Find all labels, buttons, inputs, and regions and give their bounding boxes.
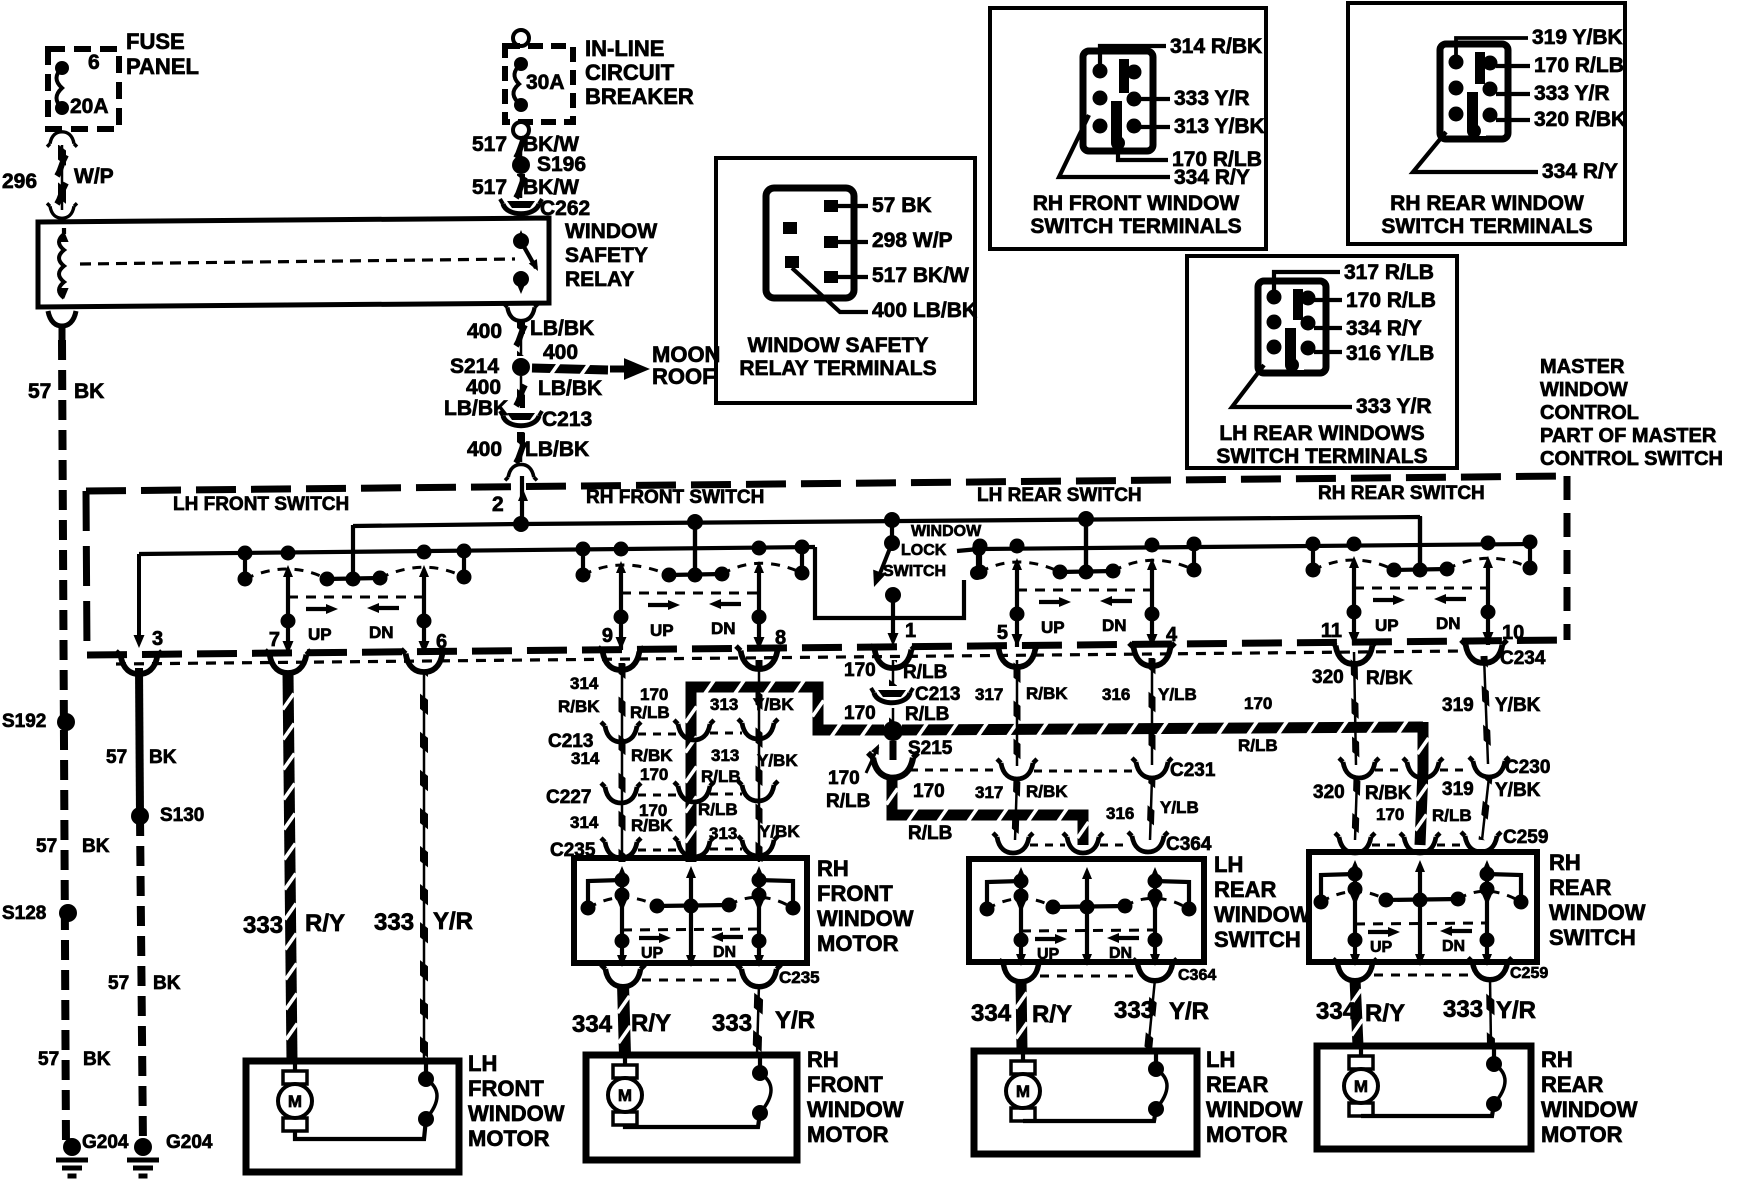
svg-text:314: 314 (570, 674, 599, 693)
wire 333 R/Y to LH front motor (288, 672, 292, 1061)
svg-text:LH: LH (1206, 1047, 1235, 1072)
svg-text:6: 6 (88, 51, 100, 74)
svg-text:FUSE: FUSE (126, 29, 185, 54)
svg-text:320 R/BK: 320 R/BK (1534, 108, 1626, 131)
svg-text:RH: RH (807, 1047, 839, 1072)
svg-text:M: M (1354, 1077, 1368, 1096)
svg-text:Y/LB: Y/LB (1158, 685, 1197, 704)
C230 connector row (1339, 758, 1379, 778)
RH rear window motor (1317, 1046, 1531, 1149)
splice S192 (57, 713, 75, 731)
wire 320 R/BK (1354, 652, 1356, 765)
svg-text:SWITCH TERMINALS: SWITCH TERMINALS (1030, 215, 1241, 238)
svg-text:R/BK: R/BK (631, 816, 673, 835)
svg-text:RELAY TERMINALS: RELAY TERMINALS (739, 357, 936, 380)
svg-text:3: 3 (152, 628, 163, 650)
relay coil (59, 234, 64, 298)
LH rear window motor (974, 1051, 1197, 1154)
svg-text:M: M (1016, 1082, 1030, 1101)
connector below fuse panel (47, 132, 77, 147)
svg-text:MOTOR: MOTOR (807, 1122, 889, 1147)
svg-text:MASTER: MASTER (1540, 356, 1625, 378)
svg-text:C364: C364 (1178, 967, 1216, 984)
C364 below LH rear switch (999, 960, 1043, 982)
window safety relay box (38, 218, 549, 307)
svg-text:30A: 30A (526, 71, 565, 94)
svg-text:RELAY: RELAY (565, 268, 634, 291)
svg-text:400: 400 (467, 438, 502, 461)
svg-text:UP: UP (308, 625, 332, 644)
splice S130 (131, 807, 149, 825)
svg-text:333: 333 (243, 912, 283, 939)
wire 296 W/P (61, 145, 64, 210)
svg-text:UP: UP (650, 621, 674, 640)
svg-text:R/LB: R/LB (698, 800, 738, 819)
svg-text:SAFETY: SAFETY (565, 244, 648, 267)
RH front window motor switch box (574, 858, 807, 963)
svg-text:333 Y/R: 333 Y/R (1356, 395, 1432, 418)
svg-text:400 LB/BK: 400 LB/BK (872, 299, 977, 322)
svg-text:316 Y/LB: 316 Y/LB (1346, 342, 1434, 365)
svg-text:334: 334 (971, 1000, 1012, 1027)
svg-text:IN-LINE: IN-LINE (585, 36, 664, 61)
wire 517 BK/W (520, 138, 523, 158)
svg-text:LH REAR SWITCH: LH REAR SWITCH (977, 485, 1142, 506)
svg-text:MOTOR: MOTOR (1541, 1122, 1623, 1147)
svg-text:57 BK: 57 BK (872, 194, 932, 217)
svg-text:LH FRONT SWITCH: LH FRONT SWITCH (173, 494, 349, 515)
svg-text:R/LB: R/LB (908, 823, 952, 844)
57 BK wire from terminal 3 (139, 668, 140, 816)
170 R/LB bus to rear switches (902, 727, 1423, 730)
svg-text:C259: C259 (1503, 827, 1548, 848)
wire 400 LB/BK (520, 322, 523, 356)
svg-text:334: 334 (572, 1011, 613, 1038)
svg-text:S128: S128 (2, 903, 46, 924)
fuse F6 20A (55, 61, 69, 75)
wire 317 R/BK (1016, 660, 1019, 766)
svg-text:R/BK: R/BK (1366, 668, 1413, 689)
svg-text:UP: UP (1375, 616, 1399, 635)
RH front switch rocker (693, 524, 697, 576)
svg-text:RH REAR WINDOW: RH REAR WINDOW (1390, 192, 1584, 215)
window safety relay terminals box (716, 158, 975, 403)
svg-text:57: 57 (36, 836, 57, 857)
C364 connector row (993, 833, 1033, 853)
bus corner to RH rear (1420, 722, 1423, 845)
svg-text:WINDOW: WINDOW (1540, 379, 1628, 401)
svg-text:WINDOW: WINDOW (565, 220, 657, 243)
splice S215 (883, 721, 903, 741)
svg-text:RH: RH (1549, 850, 1581, 875)
ground G204 right (134, 1138, 152, 1156)
57 BK heavy dashed wire (left) (62, 340, 66, 1147)
svg-text:MOTOR: MOTOR (1206, 1122, 1288, 1147)
svg-text:317: 317 (975, 685, 1003, 704)
svg-text:SWITCH: SWITCH (1214, 927, 1301, 952)
svg-text:517: 517 (472, 133, 507, 156)
svg-text:SWITCH TERMINALS: SWITCH TERMINALS (1381, 215, 1592, 238)
svg-text:DN: DN (369, 623, 394, 642)
svg-text:170: 170 (640, 685, 668, 704)
svg-text:C227: C227 (546, 787, 591, 808)
svg-text:WINDOW: WINDOW (1541, 1097, 1638, 1122)
C231 connector row (997, 759, 1037, 779)
svg-text:333 Y/R: 333 Y/R (1174, 87, 1250, 110)
svg-text:334 R/Y: 334 R/Y (1346, 317, 1422, 340)
svg-text:CONTROL SWITCH: CONTROL SWITCH (1540, 448, 1723, 470)
svg-text:PART OF MASTER: PART OF MASTER (1540, 425, 1717, 447)
svg-text:LH: LH (1214, 852, 1243, 877)
wire 334 R/Y RH rear (1355, 979, 1358, 1046)
svg-text:C259: C259 (1510, 965, 1548, 982)
svg-text:170: 170 (844, 703, 876, 724)
svg-text:320: 320 (1313, 782, 1345, 803)
svg-text:170: 170 (844, 660, 876, 681)
svg-text:170: 170 (640, 765, 668, 784)
svg-text:R/Y: R/Y (305, 910, 345, 937)
svg-text:S192: S192 (2, 711, 46, 732)
svg-text:S196: S196 (537, 153, 586, 176)
svg-text:298 W/P: 298 W/P (872, 229, 953, 252)
svg-text:ROOF: ROOF (652, 364, 716, 389)
svg-text:RH REAR SWITCH: RH REAR SWITCH (1318, 483, 1485, 504)
svg-text:DN: DN (713, 944, 736, 961)
svg-text:R/BK: R/BK (558, 697, 600, 716)
svg-text:20A: 20A (70, 95, 109, 118)
wire 314 R/BK column (621, 663, 624, 862)
svg-text:DN: DN (1102, 616, 1127, 635)
svg-text:R/LB: R/LB (701, 767, 741, 786)
svg-text:333 Y/R: 333 Y/R (1534, 82, 1610, 105)
RH front window switch terminals box (990, 8, 1266, 249)
svg-text:M: M (618, 1086, 632, 1105)
connector below relay right (504, 304, 538, 321)
svg-text:517 BK/W: 517 BK/W (872, 264, 969, 287)
LH front window motor (246, 1061, 459, 1172)
svg-text:S214: S214 (450, 355, 499, 378)
svg-text:BREAKER: BREAKER (585, 84, 694, 109)
svg-text:R/BK: R/BK (1365, 783, 1412, 804)
wire 334 R/Y RH front (623, 984, 625, 1055)
fuse panel box (48, 49, 119, 129)
svg-text:334 R/Y: 334 R/Y (1542, 160, 1618, 183)
svg-text:C235: C235 (779, 968, 820, 987)
svg-text:5: 5 (997, 622, 1008, 644)
svg-text:WINDOW: WINDOW (1549, 900, 1646, 925)
svg-text:RH FRONT WINDOW: RH FRONT WINDOW (1033, 192, 1240, 215)
RH front window motor (586, 1055, 797, 1160)
svg-text:Y/R: Y/R (1169, 998, 1209, 1025)
svg-text:1: 1 (905, 620, 916, 642)
svg-text:G204: G204 (166, 1132, 213, 1153)
wire 170 R/LB feed column (691, 687, 884, 862)
svg-text:CIRCUIT: CIRCUIT (585, 60, 675, 85)
svg-text:REAR: REAR (1214, 877, 1276, 902)
relay dashed line (80, 259, 515, 264)
svg-text:RH: RH (1541, 1047, 1573, 1072)
svg-text:FRONT: FRONT (817, 881, 893, 906)
in-line circuit breaker (513, 30, 529, 46)
svg-text:400: 400 (543, 341, 578, 364)
svg-text:LB/BK: LB/BK (530, 317, 594, 340)
svg-text:170: 170 (1244, 694, 1272, 713)
svg-text:WINDOW: WINDOW (468, 1101, 565, 1126)
svg-text:7: 7 (269, 629, 280, 651)
C235 below RH front motor switch (601, 965, 645, 987)
splice S196 (512, 156, 530, 174)
svg-text:170 R/LB: 170 R/LB (1346, 289, 1436, 312)
svg-text:313: 313 (711, 746, 739, 765)
wire 319 Y/BK (1484, 656, 1488, 764)
svg-text:WINDOW: WINDOW (1206, 1097, 1303, 1122)
svg-text:G204: G204 (82, 1132, 129, 1153)
svg-text:C364: C364 (1166, 834, 1212, 855)
svg-text:R/Y: R/Y (631, 1010, 671, 1037)
svg-text:LOCK: LOCK (901, 542, 947, 559)
svg-text:319 Y/BK: 319 Y/BK (1532, 26, 1623, 49)
svg-text:WINDOW: WINDOW (817, 906, 914, 931)
LH rear switch rocker (1084, 519, 1088, 573)
svg-text:R/LB: R/LB (1432, 806, 1472, 825)
svg-text:C213: C213 (542, 408, 592, 431)
svg-text:57: 57 (108, 973, 129, 994)
svg-text:DN: DN (1109, 945, 1132, 962)
svg-text:MOTOR: MOTOR (817, 931, 899, 956)
svg-text:R/Y: R/Y (1365, 1000, 1405, 1027)
svg-text:334: 334 (1316, 998, 1357, 1025)
svg-text:319: 319 (1442, 695, 1474, 716)
svg-text:WINDOW: WINDOW (807, 1097, 904, 1122)
svg-text:R/BK: R/BK (1026, 684, 1068, 703)
svg-text:313: 313 (709, 824, 737, 843)
svg-text:LB/BK: LB/BK (538, 377, 602, 400)
svg-text:319: 319 (1442, 779, 1474, 800)
LH rear window switch box (969, 859, 1204, 962)
C213 connector row (601, 722, 641, 742)
svg-text:BK/W: BK/W (523, 176, 579, 199)
splice S128 (59, 904, 77, 922)
svg-text:170: 170 (828, 768, 860, 789)
svg-text:334 R/Y: 334 R/Y (1174, 166, 1250, 189)
svg-text:314 R/BK: 314 R/BK (1170, 35, 1262, 58)
svg-text:WINDOW: WINDOW (1214, 902, 1311, 927)
svg-text:333: 333 (1443, 996, 1483, 1023)
svg-text:BK: BK (83, 1049, 111, 1070)
ground G204 left (63, 1138, 81, 1156)
svg-text:Y/R: Y/R (1496, 997, 1536, 1024)
svg-text:314: 314 (570, 813, 599, 832)
wire 170 R/LB lock output (892, 660, 895, 686)
svg-text:517: 517 (472, 176, 507, 199)
svg-text:SWITCH: SWITCH (1549, 925, 1636, 950)
connector line below master box (116, 651, 1462, 664)
svg-text:333: 333 (374, 909, 414, 936)
wire 333 Y/R RH rear (1490, 978, 1491, 1046)
window lock switch (884, 512, 900, 528)
svg-text:C234: C234 (1500, 648, 1546, 669)
wire 333 Y/R LH rear (1148, 979, 1155, 1051)
svg-text:BK: BK (153, 973, 181, 994)
svg-text:400: 400 (466, 376, 501, 399)
svg-text:DN: DN (1442, 938, 1465, 955)
rail from terminal 2 (353, 524, 521, 526)
RH rear window switch box (1309, 852, 1537, 962)
svg-text:LH: LH (468, 1051, 497, 1076)
svg-text:REAR: REAR (1541, 1072, 1603, 1097)
svg-text:314: 314 (571, 749, 600, 768)
wire 316 Y/LB (1151, 658, 1154, 765)
svg-text:LB/BK: LB/BK (525, 438, 589, 461)
C235 connector row (601, 838, 641, 858)
wire 334 R/Y LH rear (1021, 980, 1022, 1051)
svg-text:LB/BK: LB/BK (444, 397, 508, 420)
svg-text:317: 317 (975, 783, 1003, 802)
wire to master switch terminal 2 (520, 476, 524, 524)
wire 313 Y/BK column (758, 660, 761, 862)
master control switch dashed box (86, 476, 1567, 491)
svg-text:FRONT: FRONT (468, 1076, 544, 1101)
connector C262 (507, 201, 535, 208)
svg-text:Y/BK: Y/BK (757, 751, 798, 770)
svg-text:9: 9 (602, 625, 613, 647)
svg-text:DN: DN (711, 619, 736, 638)
LH front switch rocker (137, 554, 141, 640)
C227 connector row (601, 783, 641, 803)
svg-text:11: 11 (1321, 620, 1342, 642)
leaders (1100, 46, 1166, 64)
C259 connector row (1335, 833, 1375, 853)
svg-text:57: 57 (28, 380, 51, 403)
svg-text:316: 316 (1102, 685, 1130, 704)
svg-text:SWITCH: SWITCH (883, 563, 946, 580)
svg-text:317 R/LB: 317 R/LB (1344, 261, 1434, 284)
svg-text:170: 170 (913, 781, 945, 802)
svg-text:2: 2 (492, 493, 504, 516)
moon roof feed (532, 368, 608, 370)
svg-text:UP: UP (641, 945, 664, 962)
svg-text:313 Y/BK: 313 Y/BK (1174, 115, 1265, 138)
svg-text:320: 320 (1312, 667, 1344, 688)
svg-text:DN: DN (1436, 614, 1461, 633)
svg-text:Y/BK: Y/BK (753, 695, 794, 714)
svg-text:Y/BK: Y/BK (759, 822, 800, 841)
svg-text:Y/BK: Y/BK (1495, 695, 1541, 716)
svg-text:Y/R: Y/R (433, 908, 473, 935)
svg-text:313: 313 (710, 695, 738, 714)
wire 333 Y/R to LH front motor (423, 672, 426, 1061)
svg-text:R/LB: R/LB (903, 662, 947, 683)
svg-text:C230: C230 (1505, 757, 1550, 778)
svg-text:170: 170 (1376, 805, 1404, 824)
svg-text:W/P: W/P (74, 165, 114, 188)
svg-text:FRONT: FRONT (807, 1072, 883, 1097)
svg-text:WINDOW SAFETY: WINDOW SAFETY (748, 334, 929, 357)
svg-text:C213: C213 (915, 684, 960, 705)
svg-text:400: 400 (467, 320, 502, 343)
svg-text:Y/R: Y/R (775, 1007, 815, 1034)
svg-text:UP: UP (1041, 618, 1065, 637)
connector C213 (roof) (507, 413, 535, 420)
rail 2 (139, 547, 815, 554)
svg-text:333: 333 (712, 1010, 752, 1037)
svg-text:BK: BK (82, 836, 110, 857)
relay contacts (513, 233, 529, 249)
svg-text:57: 57 (106, 747, 127, 768)
splice S214 (512, 358, 530, 376)
connector below relay left (48, 311, 76, 326)
svg-text:R/LB: R/LB (630, 703, 670, 722)
svg-text:REAR: REAR (1206, 1072, 1268, 1097)
svg-text:316: 316 (1106, 804, 1134, 823)
svg-text:Y/LB: Y/LB (1160, 798, 1199, 817)
svg-text:333: 333 (1114, 997, 1154, 1024)
wire 333 Y/R RH front (757, 984, 759, 1055)
svg-text:REAR: REAR (1549, 875, 1611, 900)
svg-text:57: 57 (38, 1049, 59, 1070)
LH rear windows switch terminals box (1187, 256, 1457, 468)
svg-text:M: M (288, 1092, 302, 1111)
svg-text:R/LB: R/LB (826, 791, 870, 812)
svg-text:Y/BK: Y/BK (1495, 780, 1541, 801)
svg-text:UP: UP (1370, 939, 1393, 956)
svg-text:296: 296 (2, 170, 37, 193)
svg-text:SWITCH TERMINALS: SWITCH TERMINALS (1216, 445, 1427, 468)
svg-text:R/LB: R/LB (1238, 736, 1278, 755)
svg-text:RH: RH (817, 856, 849, 881)
RH rear switch rocker (1418, 517, 1422, 571)
svg-text:BK: BK (149, 747, 177, 768)
svg-text:S130: S130 (160, 805, 204, 826)
connector C213 (master) (878, 690, 906, 697)
svg-text:PANEL: PANEL (126, 54, 199, 79)
svg-text:CONTROL: CONTROL (1540, 402, 1639, 424)
svg-text:WINDOW: WINDOW (911, 523, 982, 540)
svg-text:RH FRONT SWITCH: RH FRONT SWITCH (586, 487, 764, 508)
C259 below RH rear switch (1333, 959, 1377, 981)
svg-text:MOTOR: MOTOR (468, 1126, 550, 1151)
RH rear window switch terminals box (1348, 3, 1625, 244)
svg-text:R/BK: R/BK (1026, 782, 1068, 801)
svg-text:LH REAR WINDOWS: LH REAR WINDOWS (1219, 422, 1424, 445)
svg-text:R/BK: R/BK (631, 746, 673, 765)
svg-text:R/Y: R/Y (1032, 1001, 1072, 1028)
svg-text:C231: C231 (1170, 760, 1216, 781)
svg-text:170 R/LB: 170 R/LB (1534, 54, 1624, 77)
svg-text:BK: BK (74, 380, 104, 403)
